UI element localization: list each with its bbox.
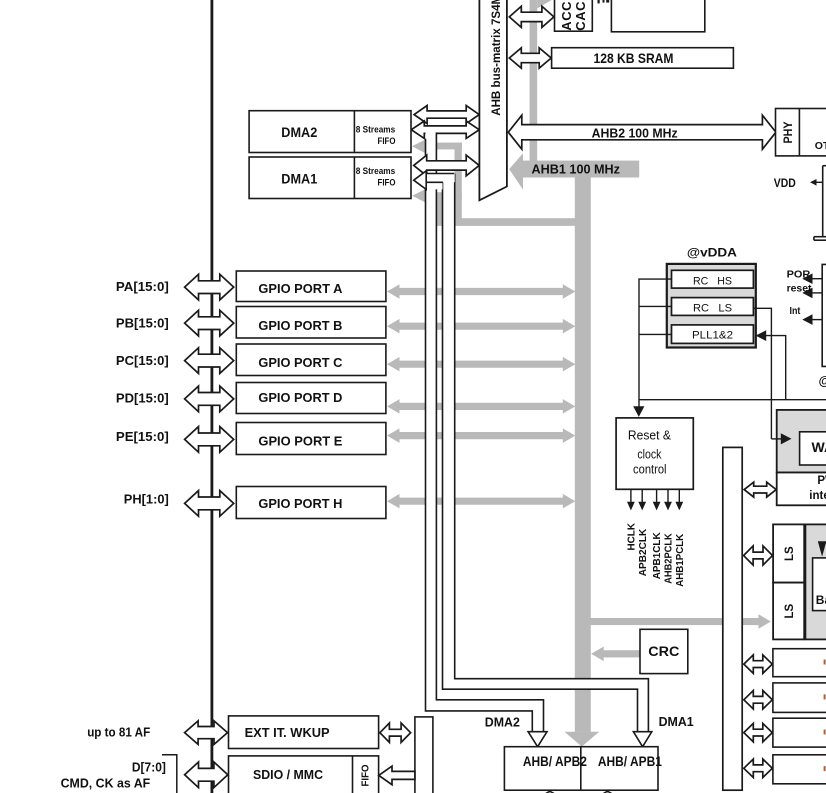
box: CRC — [640, 629, 688, 673]
box sliver: voltage regulator (cut at right) — [822, 166, 824, 237]
arrow: AF pins to EXT IT. WKUP — [185, 721, 228, 745]
box: GPIO PORT A — [236, 271, 386, 302]
svg-text:VDD: VDD — [774, 176, 796, 190]
arrow: port A pins to GPIO PORT A — [185, 274, 234, 300]
wire: oscillator outputs to reset/clock control — [639, 279, 672, 410]
arrowhead into PLL1&2 — [756, 330, 767, 341]
arrow: net into Reset & clock control — [633, 406, 644, 417]
svg-text:up to 81 AF: up to 81 AF — [87, 725, 150, 740]
svg-text:Int: Int — [790, 305, 801, 317]
box: RC LS oscillator — [672, 298, 754, 316]
arrow: APB2 bar to SDIO FIFO — [379, 766, 415, 785]
wire: gray bus arrow GPIO PORT B to trunk — [387, 319, 575, 334]
box: ACCEL./CACHE (ART accelerator, cut at top) — [555, 0, 593, 31]
box: DMA2 — [249, 111, 411, 153]
arrow: clock output HCLK — [630, 489, 632, 503]
arrow: APB1 bar to peripheral 3 — [744, 723, 773, 742]
wire: gray horizontal return to trunk — [437, 218, 576, 226]
svg-text:RC LS: RC LS — [693, 303, 732, 315]
box: GPIO PORT E — [236, 423, 386, 455]
arrow: APB1 bar to LS oscillator box — [744, 546, 773, 565]
box: PLL1&2 — [672, 325, 754, 344]
arrowhead (cut) below AHB/APB2 — [545, 791, 554, 793]
bus bar: APB1 (vertical) — [723, 447, 742, 790]
wire: DMA2 peripheral bus (white bus down to AHB/APB2) — [426, 131, 548, 747]
svg-text:CACHE: CACHE — [573, 0, 588, 31]
wire: supervision net horizontal — [639, 399, 826, 401]
box: watchdog domain (gray, cut at right) — [777, 410, 826, 473]
box: APB1 peripheral 2 (cut at right) — [773, 683, 826, 713]
wire: gray bus arrow GPIO PORT D to trunk — [387, 399, 575, 414]
wire: gray branch to DMA2 — [412, 140, 425, 153]
arrow: LS clock into watchdog — [771, 438, 781, 440]
svg-text:@V: @V — [819, 373, 826, 388]
svg-text:SDIO / MMC: SDIO / MMC — [253, 767, 324, 782]
svg-text:AHB2 100 MHz: AHB2 100 MHz — [592, 125, 678, 140]
arrow: bus matrix to ACCEL/CACHE — [509, 6, 554, 27]
box sliver: power managt (cut) — [814, 236, 826, 238]
svg-text:8 Streams: 8 Streams — [356, 166, 395, 177]
box: GPIO PORT B — [236, 307, 386, 339]
wire: gray trunk top flare — [537, 0, 551, 9]
svg-text:DMA2: DMA2 — [281, 124, 317, 140]
svg-text:PH[1:0]: PH[1:0] — [124, 492, 169, 506]
svg-text:GPIO PORT E: GPIO PORT E — [258, 435, 342, 449]
arrow: clock output APB2CLK — [641, 489, 643, 503]
svg-text:Backup: Backup — [816, 593, 826, 607]
wire: gray bus arrow GPIO PORT C to trunk — [387, 357, 575, 372]
svg-text:OTG HS: OTG HS — [815, 140, 826, 152]
svg-text:8 Streams: 8 Streams — [356, 125, 395, 136]
svg-text:PWR: PWR — [817, 475, 826, 487]
svg-text:AHB1 100 MHz: AHB1 100 MHz — [532, 162, 621, 177]
arrow: APB1 bar to peripheral 4 — [744, 759, 773, 778]
wire: main gray AHB1 trunk (vertical) — [575, 161, 591, 732]
partial glyphs above flash box — [598, 0, 600, 3]
arrow: supervision output 3 — [812, 319, 823, 321]
svg-text:GPIO PORT B: GPIO PORT B — [258, 319, 342, 333]
svg-text:Reset &: Reset & — [628, 427, 671, 442]
wire: gray branch to DMA1 — [412, 189, 425, 202]
arrow: VDD into regulator (cut) — [816, 181, 823, 183]
arrow: port E pins to GPIO PORT E — [185, 427, 234, 453]
box: AHB/APB2 and AHB/APB1 bridges — [504, 747, 658, 791]
arrow: clock output APB1CLK — [656, 489, 658, 503]
arrowhead DMA1 bus into AHB/APB1 — [633, 732, 651, 747]
box: LS oscillator lower — [773, 583, 804, 640]
wire: PLL input from supervision net — [766, 336, 786, 400]
arrow: APB1 bar to PWR interface — [744, 482, 776, 497]
svg-text:FIFO: FIFO — [378, 177, 396, 188]
box: SDIO / MMC — [229, 756, 379, 793]
arrow: supervision output 2 — [812, 292, 823, 294]
box sliver: supervision POR/PDR/BOR PVD (cut) — [822, 264, 826, 366]
bus bar: APB2 (vertical, cut at bottom) — [415, 717, 433, 793]
svg-text:PLL1&2: PLL1&2 — [692, 330, 733, 342]
wire: gray bus arrow GPIO PORT E to trunk — [387, 428, 575, 443]
arrow: APB1 bar to peripheral 2 — [744, 691, 773, 710]
arrow: clock output AHB1PCLK — [678, 489, 680, 503]
box: GPIO PORT H — [236, 487, 386, 519]
wire: SDIO pin group bracket — [162, 755, 177, 793]
box: APB1 peripheral 1 (cut at right) — [773, 649, 826, 677]
box: backup registers (cut) — [813, 558, 826, 611]
wire: left I/O pin line — [211, 0, 214, 793]
svg-text:GPIO PORT C: GPIO PORT C — [258, 356, 342, 370]
svg-text:GPIO PORT H: GPIO PORT H — [258, 497, 342, 511]
bus matrix AHB bus-matrix 7S4M (parallelogram) — [479, 0, 507, 200]
wire: gray AHB trunk (upper narrow, to flash/accel) — [530, 0, 538, 162]
svg-text:APB2CLK: APB2CLK — [638, 528, 649, 576]
arrow: DMA1 peripheral port elbow (joins DMA1 bus) — [414, 171, 455, 190]
svg-text:FIFO: FIFO — [378, 136, 396, 147]
arrow: clock output AHB2PCLK — [667, 489, 669, 503]
wire: gray arrow CRC to trunk — [591, 647, 604, 662]
arrow: DMA2 peripheral port to bus matrix — [411, 121, 479, 138]
wire: gray bus arrow GPIO PORT A to trunk — [387, 284, 575, 299]
AHB1 100 MHz gray arrow into bus matrix — [509, 153, 523, 189]
box: WATCHDOG inner (cut) — [800, 432, 826, 465]
box: Reset & clock control — [616, 418, 693, 489]
svg-text:interface: interface — [809, 490, 826, 502]
svg-text:AHB/ APB1: AHB/ APB1 — [598, 754, 662, 769]
box: EXT IT. WKUP — [229, 716, 379, 749]
arrow: port D pins to GPIO PORT D — [185, 386, 234, 412]
svg-text:PHY: PHY — [781, 122, 795, 144]
arrow: DMA2 memory port to bus matrix — [414, 106, 479, 124]
box: 128 KB SRAM — [552, 48, 734, 68]
svg-text:APB1CLK: APB1CLK — [652, 532, 663, 580]
svg-text:RC HS: RC HS — [693, 275, 732, 287]
svg-text:LS: LS — [784, 546, 796, 561]
arrow: EXT IT to APB2 bus bar — [380, 723, 411, 742]
arrow: port C pins to GPIO PORT C — [185, 348, 234, 374]
svg-text:HCLK: HCLK — [627, 522, 638, 550]
arrow: APB1 bar to peripheral 1 — [744, 655, 773, 674]
arrow: AHB2 100 MHz bus matrix to USB OTG HS PHY — [508, 115, 776, 149]
arrow: supervision output 1 — [812, 278, 823, 280]
svg-text:PB[15:0]: PB[15:0] — [116, 317, 169, 331]
box: GPIO PORT D — [236, 383, 386, 414]
svg-text:LS: LS — [784, 603, 796, 618]
box: @vDDA oscillator group — [667, 264, 756, 348]
arrowhead into backup registers — [818, 541, 826, 556]
svg-text:PE[15:0]: PE[15:0] — [116, 430, 169, 444]
svg-text:reset: reset — [787, 283, 812, 295]
svg-text:POR: POR — [787, 268, 811, 280]
svg-text:EXT IT. WKUP: EXT IT. WKUP — [245, 725, 330, 740]
svg-text:PD[15:0]: PD[15:0] — [116, 392, 169, 406]
gray trunk arrowhead into AHB/APB bridges — [564, 732, 599, 747]
svg-text:128 KB SRAM: 128 KB SRAM — [594, 50, 674, 66]
wire: gray arrow trunk to LS oscillator block — [759, 614, 771, 629]
box: USB OTG HS PHY — [776, 109, 826, 156]
arrowhead DMA2 bus into AHB/APB2 — [528, 732, 547, 747]
box: DMA1 — [249, 157, 411, 199]
svg-text:AHB2PCLK: AHB2PCLK — [664, 533, 675, 584]
wire: DMA1 peripheral bus (white bus down to AHB/APB1) — [443, 174, 652, 747]
svg-text:GPIO PORT A: GPIO PORT A — [258, 282, 342, 296]
wire: gray elbow down from DMA branches — [437, 194, 462, 225]
svg-text:DMA2: DMA2 — [485, 714, 520, 729]
arrow: SDIO pins — [185, 762, 228, 788]
svg-text:clock: clock — [637, 447, 661, 462]
svg-text:AHB/ APB2: AHB/ APB2 — [523, 754, 587, 769]
svg-text:CMD, CK as AF: CMD, CK as AF — [61, 776, 151, 791]
box: APB1 peripheral 4 (cut at right) — [773, 755, 826, 784]
box: PWR interface (cut) — [777, 473, 826, 506]
arrow: bus matrix to 128 KB SRAM — [509, 48, 551, 68]
box: Flash memory (cut at top) — [611, 0, 704, 32]
box: RC HS oscillator — [672, 270, 754, 288]
svg-text:DMA1: DMA1 — [281, 170, 317, 186]
svg-text:PC[15:0]: PC[15:0] — [116, 354, 169, 368]
svg-text:AHB bus-matrix 7S4M: AHB bus-matrix 7S4M — [491, 0, 503, 116]
box: VBAT backup domain (gray, cut) — [805, 524, 826, 639]
svg-text:WATCHDOG: WATCHDOG — [812, 439, 826, 455]
svg-text:GPIO PORT D: GPIO PORT D — [258, 391, 342, 405]
svg-text:D[7:0]: D[7:0] — [132, 760, 166, 775]
svg-text:control: control — [633, 462, 667, 477]
svg-text:CRC: CRC — [648, 644, 679, 659]
box: LS oscillator upper — [773, 524, 804, 582]
wire: gray bus arrow GPIO PORT H to trunk — [387, 494, 575, 509]
svg-text:AHB1PCLK: AHB1PCLK — [675, 533, 686, 587]
arrow: DMA1 memory port to bus matrix — [414, 155, 480, 176]
svg-text:DMA1: DMA1 — [659, 714, 694, 729]
svg-text:FIFO: FIFO — [361, 764, 372, 786]
wire: RC LS output down to watchdog — [753, 308, 771, 439]
wire: gray vertical between DMA branches — [455, 145, 462, 197]
box: APB1 peripheral 3 (cut at right) — [773, 718, 826, 747]
arrow: port B pins to GPIO PORT B — [185, 310, 234, 336]
box: GPIO PORT C — [236, 344, 386, 376]
arrow: port H pins to GPIO PORT H — [185, 491, 234, 517]
svg-text:PA[15:0]: PA[15:0] — [116, 280, 169, 294]
svg-text:@vDDA: @vDDA — [687, 246, 737, 260]
arrowhead (cut) below AHB/APB1 — [603, 791, 612, 793]
